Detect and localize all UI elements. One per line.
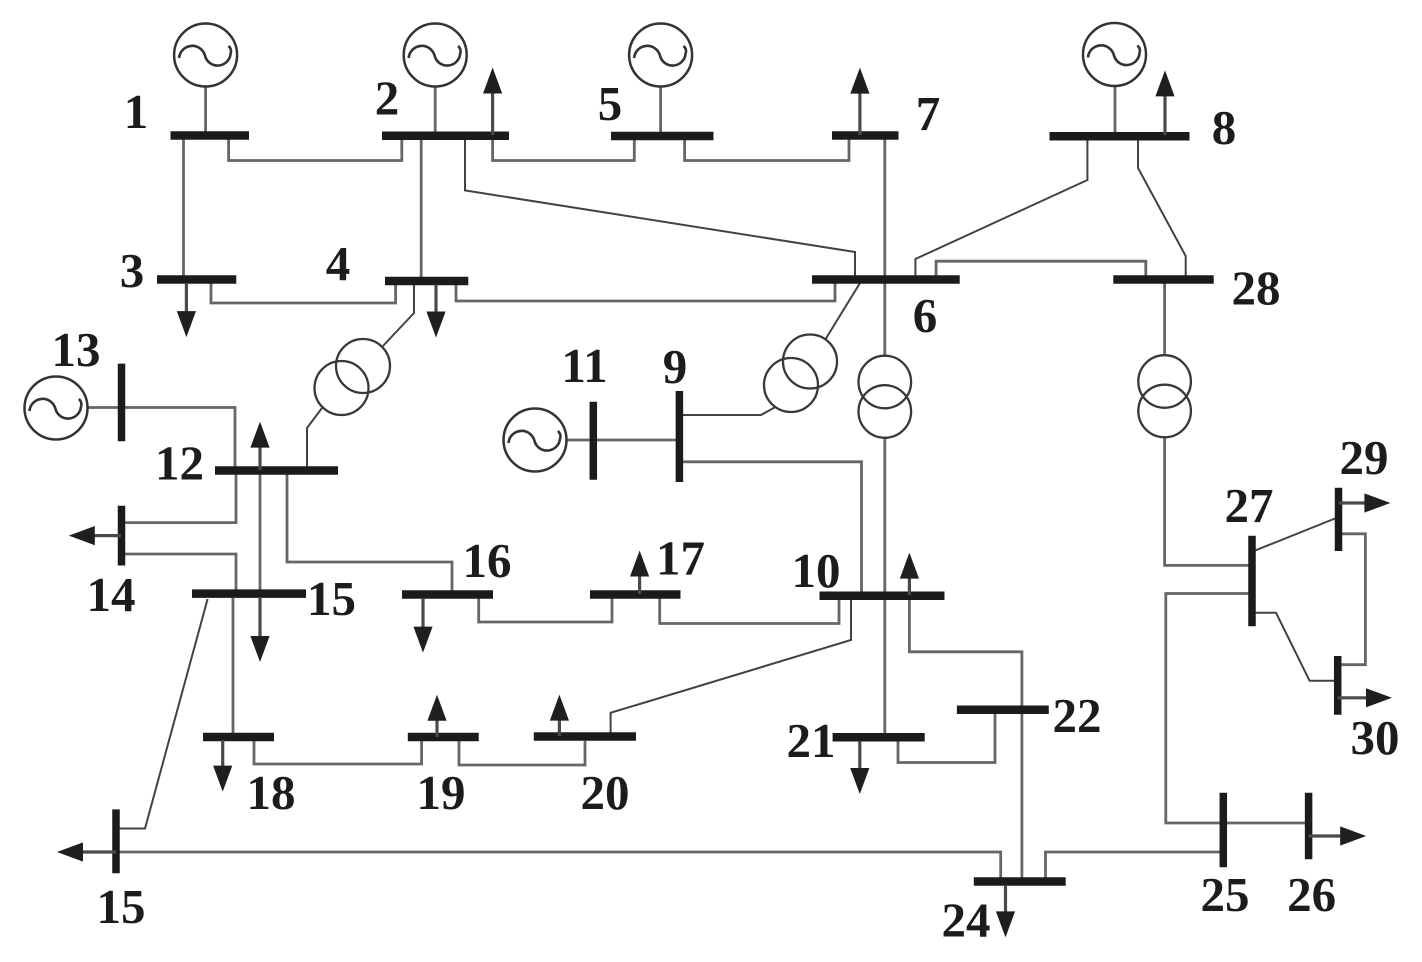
generator G5 [629,24,692,87]
bus 19 [408,733,479,742]
load arrow up at bus 10 [908,577,911,595]
bus 29 [1335,488,1343,551]
load arrow right at bus 26 [1309,834,1343,837]
bus 2 [382,132,509,141]
wire gen G8 stem [1114,86,1117,134]
svg-text:17: 17 [656,531,705,586]
svg-text:18: 18 [247,765,296,820]
bus 9 [676,391,684,482]
transformer T4-12 [315,339,391,415]
wire line 10-22 / 22-24 [909,599,1022,878]
svg-text:30: 30 [1351,710,1400,765]
bus 14 [118,506,126,566]
load arrow up at bus 12 [258,446,261,470]
wire line 19-20 [459,741,585,765]
bus 7 [832,131,899,140]
wire line 12-14 [124,474,236,523]
bus 25 [1220,793,1228,867]
wire line 2-4 [420,139,423,278]
load arrow up at bus 7 [858,92,861,135]
wire gen G1 stem [204,87,207,134]
wire gen G5 stem [659,87,662,134]
bus 28 [1113,275,1213,284]
wire line 14-15 [124,554,236,590]
load arrow down at bus 21 [858,741,861,770]
wire line 10-17 [660,599,839,624]
wire line 15-18 [232,598,235,733]
load arrow right at bus 29 [1339,501,1367,504]
wire line 25-27 and 25-26 [1166,594,1308,824]
wire line 12-15 [259,474,262,590]
wire line 4-6 [456,283,835,301]
wire line 12-16 [287,474,452,591]
svg-text:27: 27 [1225,478,1274,533]
load arrow down at bus 24 [1004,885,1007,913]
svg-text:24: 24 [942,893,991,948]
svg-text:3: 3 [120,243,145,298]
load arrow down at bus 16 [421,598,424,629]
load arrow right at bus 30 [1338,696,1368,699]
svg-text:12: 12 [155,436,204,491]
bus 6 [812,275,960,284]
wire line 6-8 [915,140,1087,276]
bus 11 [590,402,598,480]
wire line 1-3 [182,139,185,276]
wire line 4-12 lower lead [307,408,322,468]
wire line 8-28 [1138,140,1186,276]
svg-text:9: 9 [663,339,688,394]
load arrow down at bus 18 [221,740,224,768]
wire line 5-7 [685,139,849,161]
svg-text:20: 20 [581,765,630,820]
bus 10 [820,591,945,600]
bus 1 [171,131,250,140]
wire line 4-12 upper lead [382,285,414,348]
bus 16 [402,590,493,599]
bus 22 [957,705,1049,714]
wire gen G2 stem [434,87,437,134]
svg-text:1: 1 [124,84,149,139]
wire line 2-6 [465,139,855,276]
svg-text:22: 22 [1053,688,1102,743]
wire line 3-4 [211,283,396,303]
load arrow down at bus 3 [185,283,188,313]
bus 4 [385,277,468,286]
svg-text:15: 15 [307,571,356,626]
svg-text:25: 25 [1201,867,1250,922]
wire line 16-17 [479,598,612,622]
wire line 1-2 [229,139,402,161]
generator G13 [25,377,88,440]
bus 8 [1050,132,1190,141]
wire line 27-30 [1255,613,1336,681]
svg-text:29: 29 [1340,430,1389,485]
transformer T6-9 [764,335,837,413]
svg-text:4: 4 [326,236,351,291]
load arrow down at bus 15 [258,597,261,638]
svg-text:26: 26 [1287,867,1336,922]
svg-text:6: 6 [913,288,938,343]
svg-text:28: 28 [1232,261,1281,316]
wire line 6-9 upper lead [825,283,860,340]
wire line 12-13 with gen G13 lead [88,408,236,468]
wire line 15-23 diagonal [117,599,208,829]
bus 17 [590,590,681,599]
svg-text:2: 2 [375,71,400,126]
wire line 9-11 with gen G11 lead [567,439,677,442]
svg-text:21: 21 [787,713,836,768]
bus 15 [192,589,306,598]
wire line 29-30 [1340,534,1366,665]
bus 23 (labelled 15) [112,809,120,873]
svg-text:8: 8 [1212,100,1237,155]
transformer T28-27 [1138,355,1191,437]
wire line 28-27 via transformer [1165,283,1249,565]
generator G11 [504,409,567,472]
wire line 27-29 [1254,519,1335,552]
wire line 10-20 [611,599,851,733]
load arrow up at bus 2 [491,92,494,136]
bus 12 [215,466,338,475]
svg-text:14: 14 [87,567,136,622]
transformer T6-10 [859,356,912,438]
svg-text:13: 13 [52,322,101,377]
wire line 23-24 long run [68,852,1001,878]
wire line 24-25 [1046,852,1222,878]
bus 3 [157,275,236,284]
load arrow down at bus 4 [434,285,437,314]
load arrow up at bus 8 [1163,94,1166,135]
wire line 6-28 [936,261,1146,276]
wire line 9-10 [682,462,862,592]
svg-text:11: 11 [561,338,607,393]
bus 5 [611,132,714,141]
bus 30 [1334,656,1342,715]
svg-text:16: 16 [463,533,512,588]
load arrow up at bus 19 [435,719,438,737]
load arrow left at bus 14 [93,534,121,537]
wire line 18-19 [254,741,422,764]
svg-text:5: 5 [598,76,623,131]
load arrow up at bus 20 [558,719,561,736]
wire line 2-5 [493,139,635,161]
load arrow up at bus 17 [638,575,641,595]
bus 21 [833,733,925,742]
load arrow left at bus 23 [81,850,116,853]
svg-text:10: 10 [792,543,841,598]
bus 24 [974,877,1066,886]
bus 27 [1248,536,1256,626]
svg-text:19: 19 [417,765,466,820]
bus 20 [534,732,636,741]
bus 26 [1305,793,1313,860]
wire line 6-9 lower lead [682,407,776,415]
generator G1 [174,24,237,87]
generator G8 [1083,23,1146,86]
svg-text:7: 7 [916,86,941,141]
svg-text:15: 15 [97,879,146,934]
generator G2 [404,24,467,87]
wire line 6-7 / 6-10 / 10-21 [883,139,886,734]
bus 13 [118,364,126,442]
wire line 21-22 [898,714,995,763]
bus 18 [203,733,274,742]
